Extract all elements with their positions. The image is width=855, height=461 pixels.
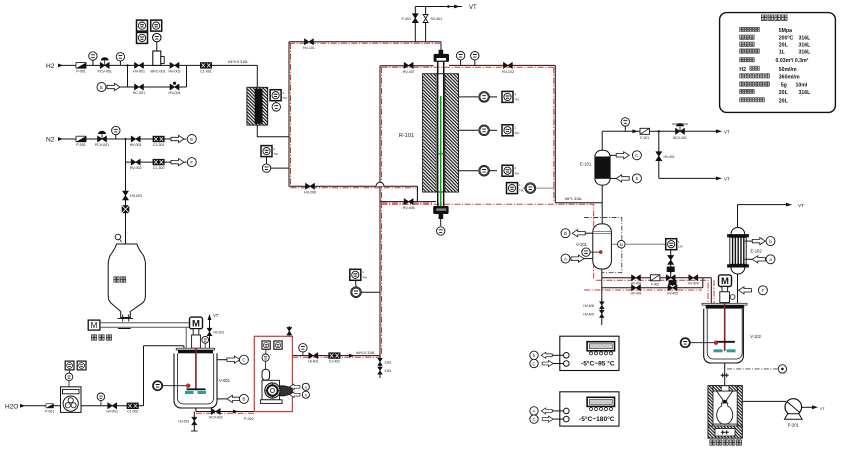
- panel instrument PICA: [137, 32, 148, 43]
- motor M (V-001): [190, 317, 203, 348]
- instrument PI (H2): [89, 52, 97, 66]
- svg-text:TIA: TIA: [515, 131, 520, 135]
- wire: P-002 relief stub: [288, 326, 290, 336]
- svg-text:316L: 316L: [385, 369, 392, 373]
- furnace hatched block R-101: [423, 74, 459, 192]
- panel TIC + instrument TI on product line: [507, 183, 556, 194]
- svg-text:316L: 316L: [799, 50, 812, 56]
- wire: bottom feed through HV-406: [380, 202, 438, 206]
- wire: H2O line: [22, 346, 184, 406]
- svg-text:PCV-001: PCV-001: [98, 70, 112, 74]
- svg-text:HV-401: HV-401: [664, 155, 675, 159]
- svg-text:316L: 316L: [799, 43, 812, 49]
- svg-text:P-001: P-001: [45, 410, 54, 414]
- trace: HV-406 bottom feed stub: [382, 202, 434, 204]
- panel TIC + instrument TI on feed riser: [350, 269, 380, 297]
- wire: vaporizer outlet to riser: [257, 42, 289, 187]
- svg-text:-5°C~180°C: -5°C~180°C: [579, 415, 615, 423]
- svg-text:HV-408: HV-408: [583, 304, 594, 308]
- svg-text:PCV-001: PCV-001: [95, 143, 109, 147]
- valve HV-407: [403, 62, 415, 73]
- svg-text:HV-403: HV-403: [631, 292, 642, 296]
- condenser E-102 shell and tubes: [727, 227, 762, 274]
- wire: V-101 drain: [601, 268, 603, 325]
- svg-text:HV-201: HV-201: [214, 331, 225, 335]
- svg-text:HV-406: HV-406: [403, 206, 415, 210]
- junction: [126, 64, 128, 66]
- svg-text:#6*1 316L: #6*1 316L: [565, 197, 582, 201]
- wire: reactor top gas line: [449, 65, 555, 202]
- wire: H2 bypass: [120, 65, 187, 87]
- svg-text:F: F: [762, 288, 765, 293]
- trace: top feed line to reactor top: [289, 42, 440, 44]
- svg-text:TIA: TIA: [519, 189, 524, 193]
- svg-text:M: M: [91, 321, 98, 330]
- svg-text:B: B: [564, 231, 567, 236]
- svg-text:P-001: P-001: [76, 143, 86, 147]
- panel instrument TIC (vaporizer): [270, 90, 287, 101]
- instrument PI (reactor top): [456, 52, 464, 66]
- svg-text:HV-206: HV-206: [304, 190, 316, 194]
- svg-text:HV-002: HV-002: [169, 70, 181, 74]
- svg-text:HV-101: HV-101: [303, 46, 315, 50]
- instrument TI over pump: [65, 373, 73, 387]
- wire: E-102 down to V-102: [737, 271, 739, 304]
- svg-text:HV-102: HV-102: [502, 70, 514, 74]
- svg-text:E: E: [190, 137, 193, 142]
- stirrer shaft (dark red): [714, 302, 736, 352]
- junction vent header: [447, 5, 450, 8]
- vent arrow VT (upper): [716, 129, 730, 134]
- pump outlet arrow: [812, 405, 825, 411]
- svg-text:SV-401: SV-401: [431, 17, 443, 21]
- svg-text:C1-002: C1-002: [127, 410, 138, 414]
- svg-text:HV-409: HV-409: [583, 313, 594, 317]
- hopper vent circle: [115, 234, 121, 242]
- valve HV-004 (bypass): [169, 82, 181, 95]
- valve HV-102 (reactor top outlet): [502, 62, 514, 73]
- svg-text:HCV-002: HCV-002: [209, 415, 223, 419]
- pulsation dampener: [262, 361, 270, 380]
- red enclosure: [254, 336, 292, 411]
- screw conveyor tube: [100, 315, 189, 329]
- manifold valve 1: [631, 275, 642, 286]
- svg-text:20L: 20L: [779, 43, 789, 49]
- wire: N2 drop to hopper: [125, 162, 127, 244]
- trace: furnace box right edge: [553, 67, 555, 201]
- check valve P-001: [76, 63, 86, 74]
- svg-text:VT: VT: [820, 407, 825, 411]
- svg-text:-5°C~95 °C: -5°C~95 °C: [581, 360, 615, 368]
- nozzle arrow from b: [610, 174, 641, 183]
- svg-text:20L: 20L: [779, 98, 789, 104]
- svg-text:VT: VT: [724, 177, 730, 182]
- wire: pump P-201 outlet: [802, 406, 812, 408]
- svg-text:BCV-001: BCV-001: [673, 136, 687, 140]
- svg-text:B: B: [242, 397, 245, 402]
- svg-text:F-002: F-002: [651, 282, 660, 286]
- wire: top feed line + drop into reactor top: [289, 42, 441, 52]
- trace: manifold upper line: [596, 280, 708, 303]
- valve HV-202 on outlet: [209, 409, 223, 420]
- connector arrow to B: [217, 394, 248, 403]
- svg-text:E-102: E-102: [751, 249, 763, 254]
- svg-text:VT: VT: [798, 203, 804, 209]
- svg-text:316L: 316L: [799, 90, 812, 96]
- instrument TI (V-102): [680, 338, 714, 348]
- flow arrow on outlet: [233, 410, 239, 414]
- svg-text:C1-301: C1-301: [153, 143, 165, 147]
- svg-text:HV-004: HV-004: [169, 91, 181, 95]
- svg-text:V-101: V-101: [576, 242, 588, 247]
- powder drop tube: [185, 327, 187, 348]
- svg-text:5g: 5g: [781, 83, 787, 89]
- svg-text:F-401: F-401: [402, 17, 411, 21]
- flame arrestor C1-302: [153, 159, 165, 170]
- reactor tube (upper exposed): [438, 62, 444, 74]
- svg-text:R-101: R-101: [399, 133, 414, 139]
- svg-text:VT: VT: [469, 5, 477, 11]
- svg-text:HV-001: HV-001: [133, 70, 145, 74]
- valve HV-406: [403, 199, 415, 210]
- wire: filter to pump P-201: [725, 400, 786, 402]
- svg-text:H2O: H2O: [5, 404, 18, 411]
- instrument TI-407 (reactor bottom): [437, 219, 445, 235]
- trace: furnace box bottom / product line: [382, 204, 594, 278]
- outlet diffuser: [280, 386, 292, 396]
- svg-text:C: C: [532, 361, 535, 366]
- flow arrow: [632, 129, 638, 133]
- controller housing: [560, 392, 619, 426]
- back pressure valve BCV-001: [672, 123, 688, 140]
- drain valve 2 (vertical): [583, 310, 604, 317]
- drain dash-dot + sample circle: [727, 365, 787, 373]
- lower manifold valve 2 (actuated): [667, 280, 678, 295]
- svg-text:V-102: V-102: [750, 334, 762, 339]
- hopper vessel (CJK label liao cang): [108, 244, 145, 319]
- instrument TI (H2): [116, 53, 124, 66]
- check valve P-001 (N2): [76, 136, 86, 147]
- wire: product line to V-101: [555, 202, 602, 204]
- svg-text:TIA: TIA: [362, 275, 367, 279]
- valve (vertical) under LIC: [668, 255, 674, 264]
- svg-text:HV-203: HV-203: [178, 420, 189, 424]
- svg-text:A: A: [533, 409, 536, 414]
- relief valve SV-401: [423, 15, 442, 23]
- svg-text:C1-402: C1-402: [329, 359, 340, 363]
- svg-text:HV-001: HV-001: [107, 410, 118, 414]
- instrument PI (H2O): [97, 393, 105, 406]
- svg-text:5Mpa: 5Mpa: [779, 28, 792, 34]
- flask inside: [717, 403, 733, 424]
- motor M (V-102 agitator): [719, 275, 735, 302]
- needle valve HV-401: [656, 152, 675, 161]
- svg-text:TIA: TIA: [283, 96, 288, 100]
- filter on N2 drop: [122, 205, 130, 213]
- svg-text:HV-407: HV-407: [403, 70, 415, 74]
- instrument TI-403 + panel TICA: [459, 165, 520, 176]
- nozzle arrow to C: [610, 151, 641, 160]
- mass flow controller MFC-001: [151, 51, 166, 74]
- stirrer (V-001): [185, 348, 206, 394]
- outlet union: [721, 373, 729, 377]
- valve HV-401 (feed): [308, 353, 318, 364]
- vent line arrow VT: [786, 203, 804, 209]
- svg-text:316L: 316L: [385, 361, 392, 365]
- reactor top stem: [434, 50, 449, 62]
- junction: [124, 138, 126, 140]
- instrument PI (feed line): [299, 344, 307, 356]
- instrument TI-401 + panel TICA: [459, 91, 520, 102]
- connector arrow to F: [171, 158, 196, 167]
- relief valve on box top: [287, 327, 292, 335]
- trace: pump P-002 feed line to riser: [292, 357, 380, 378]
- panel instruments in box: [262, 341, 282, 349]
- svg-text:LIA: LIA: [678, 245, 683, 249]
- vessel body V-001 (jacketed): [174, 353, 231, 408]
- vent VT with valve: [207, 313, 224, 336]
- wire: H2 main line: [61, 65, 257, 87]
- vessel flange V-102: [702, 303, 747, 308]
- wire: BCV branch down to VT: [659, 131, 716, 178]
- instrument TI-402 + panel TICA: [459, 125, 520, 136]
- connector arrow to C: [217, 355, 248, 364]
- wire: V-001 drain stub: [193, 412, 195, 432]
- instrument TI2 + link to riser: [262, 157, 289, 173]
- instrument TI (reactor top): [471, 52, 479, 66]
- lower manifold valve 1: [631, 285, 642, 296]
- insulation boundary (dash-dot): [584, 218, 622, 273]
- flame arrestor C1-301: [153, 136, 165, 147]
- condenser E-101 body: [580, 150, 610, 185]
- connector F arrow into line: [739, 286, 768, 295]
- svg-text:M: M: [620, 243, 623, 247]
- svg-text:20L: 20L: [779, 90, 789, 96]
- svg-text:P-001: P-001: [76, 70, 86, 74]
- svg-text:#4*0.5 316L: #4*0.5 316L: [356, 351, 375, 355]
- valve HV-002: [169, 62, 181, 73]
- heater C-101 hatched body: [247, 87, 268, 125]
- wire: manifold lower: [602, 287, 703, 289]
- valve HV-206 (lower feed): [304, 183, 316, 194]
- trace: vaporizer loop left riser: [290, 43, 292, 186]
- pump base: [261, 400, 283, 404]
- title (CJK): [761, 15, 787, 20]
- svg-text:10ml: 10ml: [796, 83, 808, 89]
- vessel body V-102 (jacketed): [704, 309, 762, 363]
- svg-text:P-201: P-201: [788, 423, 800, 428]
- drain valve 1 (vertical): [583, 302, 604, 309]
- diaphragm pump head: [262, 380, 280, 400]
- funnel inside: [717, 391, 733, 401]
- wire: level controller drop: [670, 250, 672, 278]
- sample connectors right of box: [290, 383, 310, 390]
- riser fittings 316L: [378, 358, 392, 365]
- svg-text:HV-402: HV-402: [631, 281, 642, 285]
- pipe hop over riser: [376, 182, 384, 186]
- wire: V-001 bottom outlet: [196, 408, 254, 412]
- svg-text:F: F: [190, 160, 193, 165]
- trace: lower H2 feed line: [291, 186, 418, 201]
- panel instrument TIC2 (trace line): [261, 146, 278, 157]
- motor M (metering feeder): [88, 320, 100, 330]
- trace: manifold lower line: [584, 280, 714, 303]
- control valve (actuated) on manifold: [666, 267, 675, 281]
- connector B out: [561, 229, 593, 238]
- node H2 inlet: [46, 63, 63, 70]
- manifold orifice: [650, 275, 660, 287]
- svg-text:A: A: [564, 256, 567, 261]
- wire: V-102 bottom outlet to filter: [724, 363, 726, 386]
- wire: lower H2 feed via HV-206: [289, 186, 417, 201]
- flame arrestor C1-001: [200, 62, 212, 73]
- instrument TI (vaporizer): [272, 101, 280, 111]
- svg-text:VT: VT: [213, 313, 219, 318]
- control valve PCV-001: [98, 57, 112, 73]
- instrument PI (vent line): [621, 118, 629, 132]
- svg-text:360ml/m: 360ml/m: [779, 74, 800, 80]
- svg-text:HC-001: HC-001: [133, 91, 145, 95]
- svg-text:HV-001: HV-001: [130, 143, 142, 147]
- wire: P-002 feed line to riser: [292, 355, 380, 357]
- svg-text:N2: N2: [46, 137, 55, 144]
- check C1-002: [127, 403, 139, 414]
- svg-text:V-001: V-001: [219, 378, 231, 383]
- node N2 inlet: [46, 137, 63, 144]
- svg-text:C: C: [532, 417, 535, 422]
- arrestor C1-402: [328, 352, 340, 363]
- wire: FC to MFC signal: [156, 42, 158, 51]
- svg-text:H2: H2: [46, 63, 55, 70]
- svg-text:HV-404: HV-404: [688, 281, 699, 285]
- vent arrow VT: [454, 5, 477, 12]
- svg-text:TIA: TIA: [515, 171, 520, 175]
- pump box (blower): [61, 387, 82, 413]
- wire: feed riser x=380: [379, 66, 381, 378]
- panel instruments above pump: [65, 361, 86, 373]
- ports + connectors A / C: [530, 407, 569, 424]
- valve F-401 (vertical): [402, 14, 419, 23]
- display: [587, 397, 614, 406]
- instrument PI (V-001 top): [202, 336, 209, 348]
- svg-text:C1-302: C1-302: [153, 166, 165, 170]
- valve HV-001 (N2 branch E): [130, 136, 142, 147]
- filter housing hatched walls: [708, 386, 742, 438]
- orifice F-001: [640, 128, 650, 140]
- wire: E-101 / V-101 vertical: [601, 185, 603, 224]
- display: [587, 342, 614, 351]
- vacuum pump P-201: [785, 399, 803, 428]
- valve HC-001 (bypass): [133, 84, 145, 95]
- indicator dots: [590, 352, 613, 355]
- wire: N2 main line: [61, 138, 187, 140]
- wire: V-001 vent VT: [209, 318, 211, 348]
- svg-text:H2: H2: [739, 67, 746, 73]
- svg-text:HV-405: HV-405: [667, 292, 678, 296]
- panel instrument FIA: [151, 20, 162, 31]
- manifold valve near V-102: [688, 275, 699, 286]
- wire: HV-407 top feed: [380, 65, 434, 67]
- svg-text:HI-401: HI-401: [308, 359, 318, 363]
- reactor bottom flange: [433, 206, 448, 219]
- check valve P-001 (H2O): [45, 404, 54, 414]
- svg-text:TIA: TIA: [515, 98, 520, 102]
- controller housing: [560, 336, 619, 370]
- nozzle arrow to b: [745, 237, 775, 246]
- trace: V-001 bottom outlet line: [196, 412, 254, 414]
- svg-text:C1-001: C1-001: [200, 70, 212, 74]
- valve HV-101 (top feed): [303, 39, 315, 50]
- svg-text:F-001: F-001: [640, 136, 649, 140]
- wire: N2 branch F: [126, 139, 187, 162]
- valve HV-003 (vertical): [123, 191, 143, 200]
- drain valve + sample stub: [178, 417, 197, 431]
- row labels (CJK substitutes): [740, 27, 770, 102]
- panel instrument PIA: [137, 20, 148, 31]
- svg-text:1L: 1L: [779, 50, 786, 56]
- connector E into bypass: [97, 83, 120, 92]
- svg-text:VT: VT: [724, 130, 730, 135]
- vessel flange V-001: [176, 348, 215, 353]
- instrument PI (N2): [112, 126, 120, 139]
- control valve PCV-001 (N2): [95, 131, 109, 147]
- reactor tube (in furnace): [438, 74, 444, 219]
- svg-text:E: E: [100, 85, 103, 90]
- ports + connectors b / C: [530, 351, 569, 368]
- instrument TI (V-001): [153, 381, 186, 391]
- svg-text:b: b: [305, 393, 307, 397]
- instrument FC: [153, 33, 161, 41]
- values: [776, 28, 812, 104]
- svg-text:316L: 316L: [799, 36, 812, 42]
- label metering machine (CJK): [91, 335, 111, 340]
- svg-text:200°C: 200°C: [779, 36, 794, 42]
- wire: vent header: [415, 7, 462, 42]
- indicator dots: [590, 408, 613, 411]
- svg-text:50ml/m: 50ml/m: [779, 67, 797, 73]
- instrument PI (pump): [262, 349, 269, 361]
- valve HV-002 (N2 branch F): [130, 159, 142, 170]
- vent arrow VT (lower): [716, 177, 730, 182]
- svg-text:0.03m²/ 0.3m²: 0.03m²/ 0.3m²: [776, 58, 809, 64]
- valve HV-001 (H2O): [107, 403, 118, 414]
- svg-text:E-101: E-101: [580, 162, 592, 167]
- nozzle arrow from a: [745, 255, 775, 264]
- svg-text:MFC-001: MFC-001: [151, 70, 166, 74]
- junction: [658, 130, 660, 132]
- trace: furnace box left edge: [381, 67, 383, 354]
- trace: furnace box top edge: [382, 66, 554, 68]
- wire: E-101 top to BCV vent: [602, 131, 716, 150]
- connector arrow to E: [171, 135, 196, 144]
- svg-text:HV-002: HV-002: [130, 166, 142, 170]
- thermo dot + instrument TI: [582, 248, 603, 256]
- wire: E-102 vent to VT: [738, 205, 787, 228]
- svg-text:HV-003: HV-003: [130, 194, 142, 198]
- wire: manifold upper: [602, 278, 712, 305]
- level signal M + panel LIC: [611, 239, 682, 250]
- svg-text:P-002: P-002: [244, 417, 254, 421]
- label vacuum filter (CJK): [710, 440, 742, 445]
- connector A in: [561, 254, 593, 263]
- vessel V-101: [576, 224, 611, 269]
- valve HV-001: [133, 62, 145, 73]
- flow arrow + pipe spec: [349, 351, 375, 358]
- svg-text:TIA: TIA: [273, 152, 278, 156]
- node H2O inlet: [5, 404, 25, 411]
- svg-text:#3*0.5 316L: #3*0.5 316L: [228, 60, 248, 64]
